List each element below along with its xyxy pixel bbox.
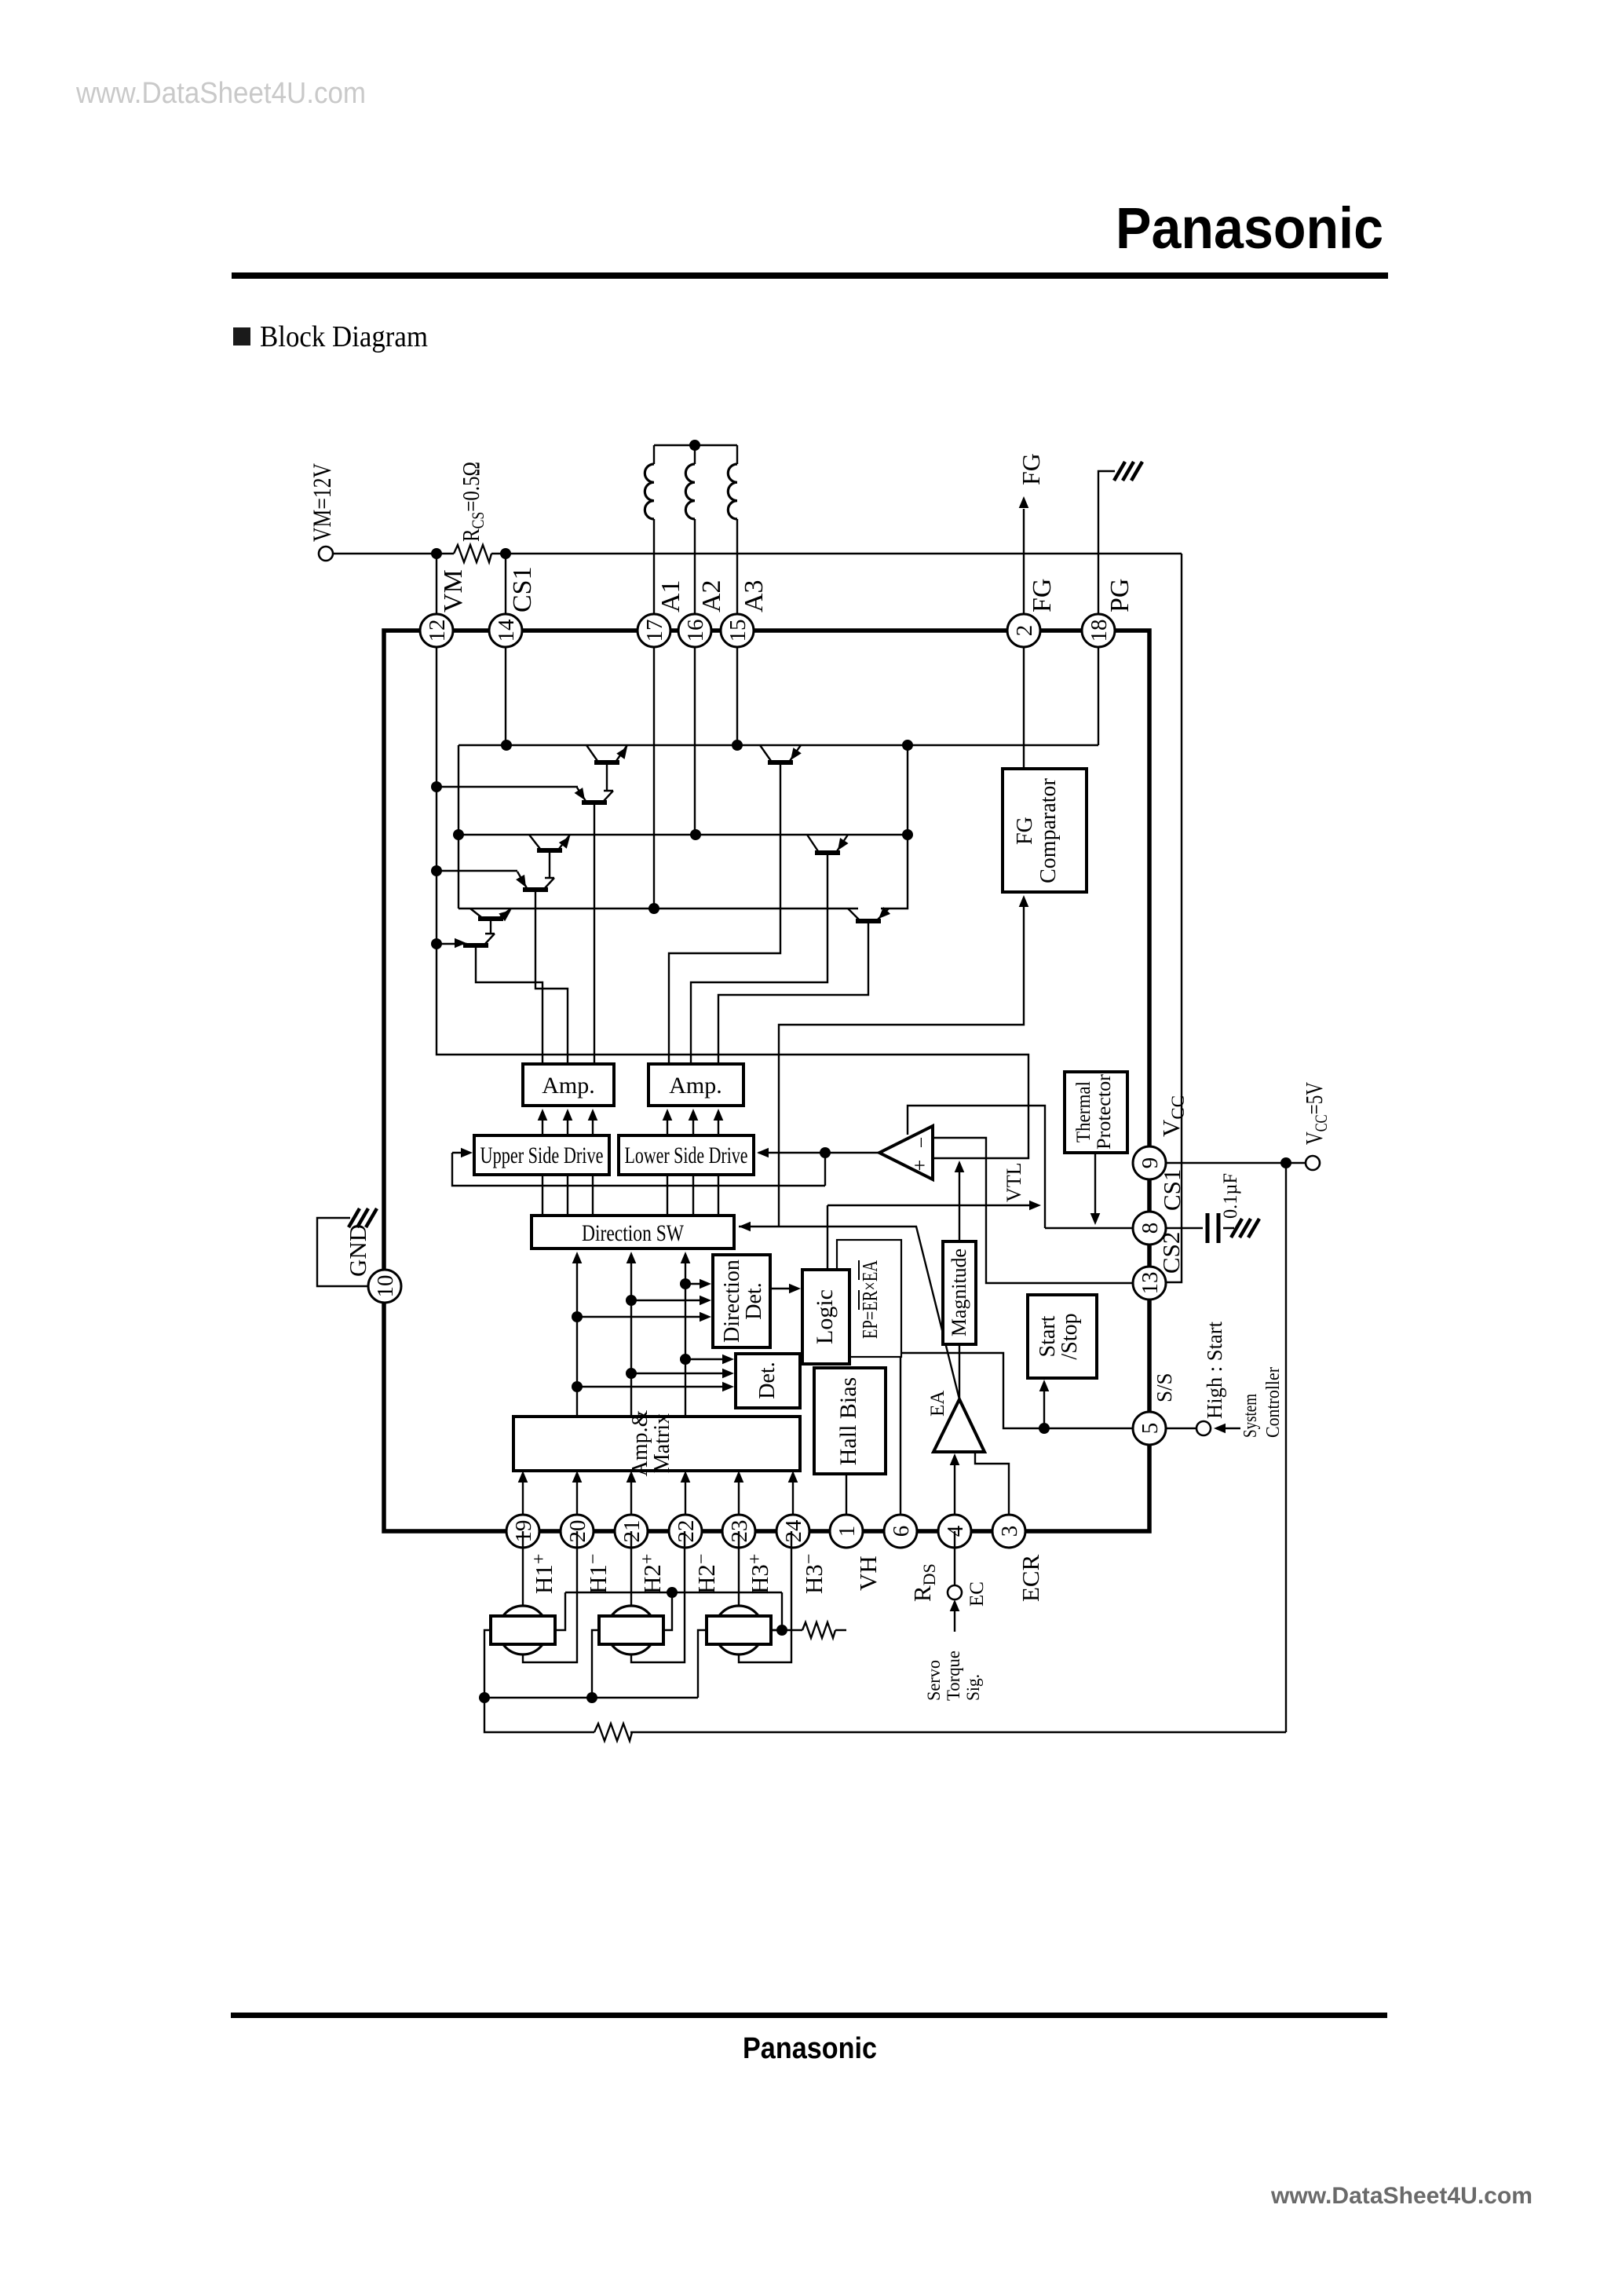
svg-text:A1: A1 [656, 579, 685, 612]
transistor Q4 [516, 872, 554, 890]
resistor RF zigzag [594, 1724, 632, 1741]
wire feed T4 [437, 870, 517, 872]
wire Logic to pin5 (S/S) [849, 1353, 1133, 1428]
svg-text:Protector: Protector [1094, 1073, 1115, 1150]
svg-text:/Stop: /Stop [1058, 1313, 1082, 1359]
wire DirectionSW to UpperSideDrive [542, 1175, 593, 1216]
block FGComparator [1003, 769, 1087, 892]
wire phase line A2 (L1063) [458, 834, 908, 835]
arrow VTL [1029, 1201, 1041, 1211]
pin 14 [489, 614, 522, 647]
svg-text:FG: FG [1028, 579, 1057, 612]
svg-text:Hall Bias: Hall Bias [835, 1377, 861, 1466]
block StartStop [1028, 1295, 1097, 1378]
op-amp comparator U1 [879, 1126, 933, 1179]
wire Magnitude to EA [959, 1344, 960, 1399]
svg-text:Amp.: Amp. [542, 1073, 595, 1099]
wire Vcc external [1167, 1162, 1306, 1164]
arrows into Amp2 [663, 1109, 673, 1121]
junction L1157-pin17 [648, 903, 659, 914]
wire comparator feedback top [908, 1106, 1045, 1228]
svg-text:Amp.: Amp. [669, 1073, 722, 1099]
arrows into Amp1 [538, 1109, 548, 1121]
svg-text:Matrix: Matrix [650, 1413, 674, 1473]
svg-text:24: 24 [781, 1519, 806, 1543]
junction L949-pin14 [501, 740, 512, 751]
pin 19 [506, 1515, 539, 1548]
pin 24 [776, 1515, 809, 1548]
wire pin16 internal rail [694, 631, 696, 835]
svg-text:3: 3 [997, 1526, 1022, 1537]
transistor Q9 [848, 907, 890, 921]
wire UpperSideDrive to Amp1 [542, 1112, 593, 1135]
wire T5 base [485, 919, 495, 934]
section marker square [233, 327, 250, 345]
pin 18 [1082, 614, 1115, 647]
arrow into S/S terminal [1214, 1424, 1226, 1434]
svg-text:14: 14 [494, 619, 519, 642]
transistor Q7 [760, 745, 802, 762]
terminal EC [948, 1585, 962, 1600]
block Logic [802, 1270, 849, 1364]
svg-text:5: 5 [1138, 1423, 1163, 1435]
pin 2 [1007, 614, 1040, 647]
transistor Q6 [455, 934, 495, 948]
wire VTL line [827, 1205, 1036, 1270]
block DirectionSW [532, 1216, 734, 1249]
svg-text:15: 15 [725, 620, 751, 642]
wire pin4 external [954, 1531, 955, 1585]
svg-text:Comparator: Comparator [1036, 777, 1061, 883]
wire hall3 to resistor [772, 1629, 802, 1631]
svg-text:Thermal: Thermal [1073, 1081, 1094, 1143]
svg-text:Start: Start [1036, 1315, 1060, 1357]
wire pin6 RDS rail [900, 1357, 901, 1531]
svg-text:−: − [910, 1137, 933, 1149]
pin 23 [722, 1515, 755, 1548]
overline EA [858, 1260, 860, 1280]
pin 13 [1133, 1267, 1166, 1300]
wire FG output [1023, 509, 1025, 631]
wire hall pins to AmpMatrix [523, 1474, 793, 1531]
wire pin12 external stub [436, 554, 437, 631]
wire hall sensor bottoms [523, 1531, 791, 1662]
block AmpMatrix [513, 1417, 800, 1471]
wire T6 base [476, 945, 542, 1064]
svg-text:17: 17 [642, 620, 667, 642]
junction feed T6 [431, 938, 442, 949]
arrow FG up [1019, 496, 1029, 508]
svg-text:S/S: S/S [1153, 1373, 1176, 1402]
transistor Q8 [807, 835, 849, 853]
capacitor C1 0.1uF [1207, 1213, 1218, 1243]
wire T8 base [691, 853, 827, 1064]
svg-text:VTL: VTL [1003, 1162, 1025, 1202]
coil L3 [728, 464, 737, 519]
pin 15 [721, 614, 754, 647]
junction L1063-col right [902, 829, 913, 840]
svg-text:0.1µF: 0.1µF [1220, 1173, 1241, 1219]
wire pin1 to HallBias [846, 1474, 847, 1531]
wire coil A3 leads [736, 445, 738, 631]
wire pin14 external stub [505, 554, 506, 631]
wire bottom feedback [484, 1698, 594, 1732]
wire pin2 to FG comparator [1023, 631, 1025, 769]
arrow into EA [950, 1453, 960, 1465]
svg-text:PG: PG [1105, 579, 1134, 612]
wire AmpMatrix to DirectionSW [577, 1255, 685, 1417]
junction L949-pin15 [732, 740, 743, 751]
pin 6 [884, 1515, 917, 1548]
svg-text:Servo: Servo [924, 1660, 944, 1701]
wire T2 base [594, 803, 595, 1064]
transistor Q1 [586, 745, 627, 762]
junction feed T4 [431, 865, 442, 876]
wire pin3 ECR route [975, 1452, 1009, 1531]
svg-text:ECR: ECR [1017, 1554, 1044, 1602]
svg-text:Lower Side Drive: Lower Side Drive [625, 1143, 748, 1168]
svg-text:Panasonic: Panasonic [743, 2032, 877, 2065]
wire T7 base [669, 762, 780, 1064]
svg-text:Det.: Det. [755, 1362, 780, 1398]
svg-text:13: 13 [1138, 1272, 1163, 1295]
pin 3 [992, 1515, 1025, 1548]
svg-text:VM=12V: VM=12V [309, 463, 337, 542]
svg-text:+: + [908, 1160, 931, 1172]
arrow into DirectionSW right [739, 1222, 751, 1232]
junction L1063-col left [453, 829, 464, 840]
pin 4 [938, 1515, 971, 1548]
wire hall common [484, 1697, 698, 1698]
wire T9 base [718, 921, 868, 1064]
svg-text:High : Start: High : Start [1203, 1322, 1226, 1419]
svg-text:Block Diagram: Block Diagram [260, 320, 428, 353]
wire VM internal rail + comparator ref [437, 631, 1028, 1158]
svg-text:Magnitude: Magnitude [948, 1249, 970, 1336]
wire CS2 external drop [1167, 554, 1182, 1282]
junction comparator output [820, 1147, 831, 1158]
svg-text:Det.: Det. [742, 1282, 766, 1319]
junction hall3 right [776, 1625, 787, 1636]
svg-text:FG: FG [1017, 453, 1045, 485]
arrow into comparator plus [955, 1161, 965, 1172]
wire PG to ground [1098, 471, 1115, 631]
transistor Q2 [575, 788, 613, 803]
wire pin18 internal rail [1098, 631, 1099, 745]
wire feed T2 [437, 786, 578, 788]
arrow into UpperSideDrive [461, 1148, 473, 1158]
junction feed T2 [431, 781, 442, 792]
svg-text:System: System [1240, 1394, 1261, 1438]
wire StartStop branch [1043, 1383, 1045, 1428]
wire phase line A3 (L949) [458, 744, 1098, 746]
pin 10 [368, 1270, 401, 1303]
pin 16 [678, 614, 711, 647]
wire feed T6 [437, 943, 458, 945]
wire Magnitude to comparator plus [959, 1168, 960, 1241]
wire comparator minus route [933, 1138, 1149, 1283]
pin 22 [669, 1515, 702, 1548]
svg-text:6: 6 [889, 1526, 914, 1537]
wire T3 base [545, 850, 554, 879]
terminal Vcc [1306, 1156, 1320, 1170]
arrow into EC [950, 1600, 960, 1611]
arrow into LowerSideDrive [757, 1148, 769, 1158]
svg-text:VCC=5V: VCC=5V [1300, 1082, 1331, 1145]
wire pin5 external [1167, 1428, 1196, 1429]
svg-text:Torque: Torque [944, 1651, 963, 1701]
wire T1 base [604, 762, 613, 792]
svg-text:1: 1 [835, 1526, 860, 1537]
svg-text:18: 18 [1087, 620, 1112, 642]
terminal VM [319, 547, 333, 561]
resistor RH zigzag [802, 1622, 846, 1638]
wire T4 base [535, 890, 568, 1064]
resistor RCS zigzag [454, 545, 491, 562]
op-amp EA [933, 1399, 985, 1452]
junction L949-col right [902, 740, 913, 751]
svg-text:Panasonic: Panasonic [1116, 196, 1383, 261]
svg-text:Direction: Direction [720, 1260, 744, 1343]
wire arrows into DirectionDet [577, 1284, 707, 1317]
junction CS1-pin14 [500, 548, 511, 559]
wire high-start stub [1223, 1428, 1240, 1429]
overline ER [858, 1290, 860, 1310]
svg-text:Sig.: Sig. [963, 1674, 983, 1701]
svg-text:CS2: CS2 [1157, 1232, 1185, 1274]
wire coil A2 leads [694, 445, 696, 631]
svg-text:Direction SW: Direction SW [582, 1220, 685, 1246]
block Amp2 [648, 1064, 743, 1106]
block DirectionDet [713, 1255, 770, 1347]
wire EC stub [954, 1611, 955, 1632]
junction hall top tie [667, 1587, 678, 1598]
footer rule [231, 2013, 1387, 2018]
svg-text:16: 16 [683, 620, 708, 642]
pin 5 [1133, 1412, 1166, 1445]
wire pin4 to EA [954, 1457, 955, 1531]
junction VM-pin12 [431, 548, 442, 559]
junctions DirectionDet taps [680, 1278, 691, 1289]
transistor Q5 [470, 909, 511, 921]
arrow into FG comparator [1019, 895, 1029, 907]
arrows into AmpMatrix [518, 1471, 528, 1483]
wire hall top tie [565, 1592, 782, 1593]
coil L1 [645, 464, 654, 519]
svg-text:EC: EC [966, 1581, 988, 1607]
junction Vcc branch [1280, 1157, 1291, 1168]
junction coil centre tap [689, 440, 700, 451]
ground CS1 cap [1231, 1219, 1259, 1238]
svg-text:VH: VH [854, 1556, 882, 1591]
wire CS1 internal [1045, 1227, 1149, 1229]
svg-text:www.DataSheet4U.com: www.DataSheet4U.com [1270, 2183, 1532, 2209]
svg-text:A2: A2 [697, 579, 726, 612]
wire bottom feedback right [630, 1731, 1286, 1733]
ground PG [1114, 462, 1142, 481]
arrowheads Det [722, 1355, 734, 1365]
junction hall common 2 [586, 1692, 597, 1703]
svg-text:A3: A3 [740, 579, 769, 612]
svg-text:9: 9 [1138, 1157, 1163, 1169]
block LowerSideDrive [619, 1135, 754, 1175]
pin 8 [1133, 1212, 1166, 1245]
block Amp1 [523, 1064, 614, 1106]
svg-text:FG: FG [1013, 817, 1037, 845]
svg-text:GND: GND [344, 1224, 371, 1277]
arrowheads DirectionDet [700, 1279, 711, 1289]
junctions Det taps [680, 1354, 691, 1365]
wire hall sensor tops [523, 1531, 739, 1606]
svg-text:EA: EA [927, 1391, 948, 1417]
wire pin17 internal rail [653, 631, 655, 909]
block ThermalProtector [1065, 1072, 1127, 1153]
wire collector column left [458, 745, 459, 909]
hall sensor H3 [707, 1606, 771, 1654]
wire DirectionDet to Logic [770, 1288, 798, 1289]
terminal S/S [1196, 1421, 1211, 1435]
wire GND bracket [317, 1218, 368, 1286]
transistor Q3 [529, 835, 570, 850]
pin 21 [615, 1515, 648, 1548]
hall sensor H1 [491, 1606, 555, 1654]
wire collector column right [881, 745, 908, 909]
svg-text:12: 12 [425, 620, 450, 642]
coil L2 [685, 464, 695, 519]
IC body border [384, 631, 1149, 1531]
svg-text:CS1: CS1 [1158, 1169, 1185, 1211]
svg-text:Logic: Logic [812, 1289, 838, 1344]
svg-text:www.DataSheet4U.com: www.DataSheet4U.com [75, 77, 366, 110]
arrow into StartStop [1039, 1380, 1050, 1391]
svg-text:Amp.&: Amp.& [628, 1409, 652, 1476]
wire pin15 internal rail [736, 631, 738, 745]
svg-text:EP=ER×EA: EP=ER×EA [858, 1260, 882, 1339]
block UpperSideDrive [474, 1135, 609, 1175]
svg-text:Upper Side Drive: Upper Side Drive [480, 1143, 604, 1168]
wire coil tie bar [654, 444, 737, 446]
junction StartStop branch [1039, 1423, 1050, 1434]
junction hall common 1 [479, 1692, 490, 1703]
svg-text:2: 2 [1012, 625, 1037, 637]
junction L1063-pin16 [690, 829, 701, 840]
svg-text:RCS=0.5Ω: RCS=0.5Ω [457, 462, 488, 542]
arrows into DirectionSW [572, 1252, 583, 1263]
pin 20 [561, 1515, 594, 1548]
pin 1 [830, 1515, 863, 1548]
svg-text:CS1: CS1 [508, 566, 537, 612]
wire VM top rail [333, 553, 1182, 554]
wire EA output to DirectionSW and FG route [739, 1227, 959, 1399]
block EP=ERxEA [837, 1240, 901, 1357]
svg-text:10: 10 [373, 1275, 398, 1298]
wire hall right contacts [556, 1592, 782, 1630]
wire pin14 internal rail [505, 631, 506, 745]
header rule [232, 272, 1388, 279]
wire UpperSideDrive input loop [452, 1153, 825, 1186]
pin 9 [1133, 1146, 1166, 1179]
svg-text:VM: VM [439, 569, 468, 612]
arrow ThermalProtector to CS1 [1090, 1213, 1101, 1225]
wire FG comparator input route [779, 905, 1024, 1226]
wire system controller rail [1285, 1163, 1287, 1732]
arrow into Logic [789, 1284, 801, 1294]
wire ThermalProtector down [1094, 1153, 1096, 1222]
wire DirectionSW to LowerSideDrive [667, 1175, 718, 1216]
pin 12 [420, 614, 453, 647]
wire hall left contacts [484, 1630, 707, 1698]
hall sensor H2 [599, 1606, 663, 1654]
block HallBias [814, 1368, 886, 1474]
wire comparator output [758, 1152, 879, 1153]
ground GND pin10 [349, 1208, 377, 1227]
wire CS1 cap [1167, 1227, 1234, 1229]
pin 17 [637, 614, 670, 647]
svg-text:22: 22 [674, 1520, 699, 1543]
wire arrows into Det [577, 1359, 729, 1387]
block Det [736, 1354, 800, 1408]
svg-text:Controller: Controller [1263, 1367, 1284, 1438]
wire coil A1 leads [653, 445, 655, 631]
wire phase line A1 (L1157) [458, 908, 858, 909]
wire LowerSideDrive to Amp2 [667, 1112, 718, 1135]
block Magnitude [943, 1241, 976, 1344]
